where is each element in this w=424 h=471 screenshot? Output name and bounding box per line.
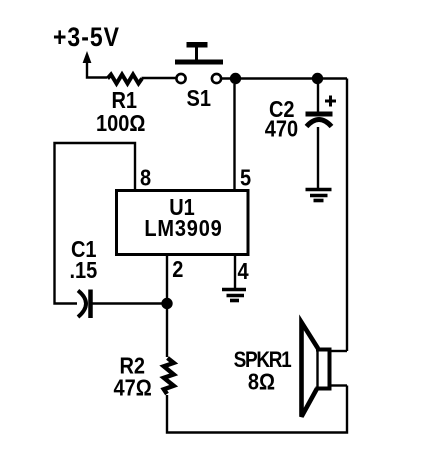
resistor R1 <box>108 75 143 84</box>
capacitor C2 <box>306 112 333 127</box>
C2 plus sign <box>325 96 336 107</box>
svg-text:.15: .15 <box>70 257 98 284</box>
svg-text:47Ω: 47Ω <box>114 374 152 401</box>
svg-text:8Ω: 8Ω <box>248 368 275 395</box>
wire C1 to node <box>93 302 168 304</box>
wire node to R2 <box>166 304 168 358</box>
wire R1 to S1 <box>142 77 177 79</box>
node junction dot pin2 <box>161 298 172 309</box>
svg-text:+3-5V: +3-5V <box>53 24 120 53</box>
node junction dot top <box>230 73 241 84</box>
svg-text:470: 470 <box>265 115 298 142</box>
wire pin5 <box>233 84 235 191</box>
switch S1 <box>175 42 223 83</box>
wire speaker bottom terminal <box>331 384 347 386</box>
wire pin4 <box>234 255 236 289</box>
IC U1 LM3909 box <box>117 191 249 255</box>
svg-text:4: 4 <box>238 258 249 285</box>
svg-text:5: 5 <box>240 164 251 191</box>
resistor R2 <box>164 358 174 394</box>
wire supply stub <box>87 61 107 78</box>
wire C2 bottom <box>317 127 319 189</box>
ground under C2 <box>306 190 332 201</box>
svg-text:2: 2 <box>172 256 183 283</box>
svg-text:S1: S1 <box>187 85 211 112</box>
svg-text:100Ω: 100Ω <box>96 110 145 137</box>
node junction dot C2 <box>312 73 323 84</box>
wire S1 to right rail <box>221 77 347 79</box>
wire speaker top terminal <box>331 350 347 352</box>
wire right rail down to speaker <box>346 79 348 352</box>
ground under pin4 <box>222 290 246 301</box>
wire pin8 / loop top / loop left <box>55 143 136 304</box>
svg-text:LM3909: LM3909 <box>144 215 222 242</box>
capacitor C1 <box>78 290 91 319</box>
speaker SPKR1 <box>302 322 332 416</box>
supply arrow <box>83 51 92 63</box>
svg-text:8: 8 <box>140 164 151 191</box>
wire pin2 <box>166 255 168 305</box>
wire C2 top <box>317 84 319 112</box>
wire R2 to bottom rail <box>167 386 347 433</box>
